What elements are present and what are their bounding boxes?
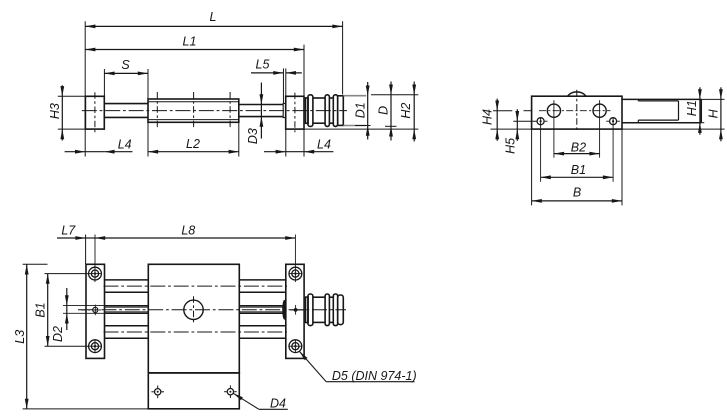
rod pilot hole on left flange (93, 307, 98, 312)
dimension H (720, 87, 722, 141)
coupling end body (side view) (338, 96, 344, 126)
mount hole right axis / B1 extension (612, 117, 614, 182)
dimension D2 (66, 288, 68, 330)
tongue slot (638, 100, 678, 102)
cylinder tube L2 (148, 99, 239, 122)
svg-text:B1: B1 (34, 302, 48, 317)
dimension L2 (148, 151, 239, 153)
dimension L7 and L8 (57, 237, 86, 239)
svg-text:L2: L2 (186, 137, 200, 151)
screw right top (DIN 974 counterbore) (289, 267, 302, 280)
svg-text:L1: L1 (183, 35, 197, 49)
guide rod hole left (547, 104, 560, 117)
extension lines L5 (282, 68, 284, 103)
dimension B2 (554, 153, 600, 155)
svg-text:B: B (573, 186, 581, 200)
seal washer (black) at right flange (282, 300, 286, 320)
dimension B1 (541, 176, 614, 178)
screw axis verticals / L7 L8 extensions (94, 235, 96, 283)
coupling rib 2 (plan) (325, 294, 329, 326)
coupling body 1 (side view) (313, 97, 325, 99)
svg-text:H3: H3 (48, 103, 62, 119)
center mark cylinder 3 (229, 92, 231, 130)
extension lines H3 (58, 95, 86, 97)
screw right bottom (DIN 974 counterbore) (289, 340, 302, 353)
dimension L3 (26, 264, 28, 409)
center mark right end block (294, 93, 296, 133)
svg-text:B1: B1 (571, 163, 586, 177)
leader D4 (233, 393, 243, 400)
guide rail bottom centerline (104, 331, 288, 333)
dimension L (85, 25, 342, 27)
end view cylinder bump arc (567, 92, 586, 96)
extension line L right (x=342.6) (342, 21, 344, 94)
mount hole right (B1) (610, 118, 617, 125)
extension lines B1 plan (45, 273, 89, 275)
svg-text:H4: H4 (481, 109, 495, 125)
dimension H1 (699, 87, 701, 135)
svg-text:D: D (377, 106, 391, 115)
coupling rib 3 (side view) (333, 95, 337, 127)
dimension L1 (85, 49, 304, 51)
hole D4 right (227, 389, 233, 395)
svg-text:D3: D3 (246, 128, 260, 144)
guide rail top (plan) (105, 279, 149, 281)
guide rod hole right (593, 104, 606, 117)
extension line S left (x=104.4) (103, 69, 105, 96)
guide rod hole left axis / B2 extension (553, 100, 555, 158)
svg-text:L7: L7 (61, 223, 76, 237)
centerline of cylinder side view (82, 110, 347, 112)
dimension L4 left (65, 151, 86, 153)
extension lines H4 H5 (493, 110, 512, 112)
rod end center dot on right flange (294, 308, 298, 312)
coupling body 2 (plan) (329, 296, 333, 298)
end view center line (576, 90, 578, 133)
svg-text:D4: D4 (270, 397, 286, 411)
extension lines L3 (23, 263, 48, 265)
svg-text:L3: L3 (13, 330, 27, 344)
svg-text:L8: L8 (181, 224, 195, 238)
piston rod D3 section (239, 104, 283, 106)
left end block (side view) (85, 96, 104, 129)
svg-text:L4: L4 (118, 137, 132, 151)
extension lines D1 D H2 (371, 94, 418, 96)
extension line L1 right (x=304) (303, 45, 305, 157)
dimension B1 plan (47, 274, 49, 347)
guide rail top centerline (104, 285, 288, 287)
right flange plate (plan) (286, 264, 304, 358)
mount hole left (B1) (537, 118, 544, 125)
D2 extension lines (63, 304, 105, 306)
carriage center circle vertical axis (193, 296, 195, 323)
leader D5 (DIN 974-1) (299, 351, 307, 360)
dimension D1 (367, 82, 369, 140)
coupling rib 1 (side view) (308, 95, 313, 127)
tongue tab (end view) (622, 98, 701, 100)
screw left top (DIN 974 counterbore) (89, 267, 102, 280)
dimension H5 (516, 109, 518, 141)
svg-text:D5 (DIN 974-1): D5 (DIN 974-1) (332, 369, 417, 383)
coupling rib 3 (plan) (333, 294, 337, 326)
dimension H4 (496, 99, 498, 141)
coupling end body (plan) (338, 295, 344, 325)
coupling body 1 (plan) (313, 296, 325, 298)
extension line S right (x=148) (147, 69, 149, 99)
spacer ring L5 (283, 103, 286, 117)
screw left bottom (DIN 974 counterbore) (89, 340, 102, 353)
dimension S (104, 72, 148, 74)
dimension D (390, 82, 392, 141)
svg-text:H1: H1 (685, 100, 699, 116)
guide rod holes horizontal centerline (539, 110, 611, 112)
hole D4 left (155, 389, 161, 395)
center mark cylinder 2 (193, 92, 195, 130)
left flange plate (plan) (86, 264, 105, 358)
mount hole left axis / B1 extension (540, 117, 542, 182)
piston rod (plan) with thread lines (105, 305, 149, 307)
piston rod left section (104, 103, 148, 105)
dimension L4 right (264, 151, 286, 153)
coupling rib 2 (side view) (325, 95, 329, 127)
svg-text:D1: D1 (354, 102, 368, 118)
dimension B (532, 200, 622, 202)
extension lines B (531, 129, 533, 205)
extension lines H1 H (701, 98, 724, 100)
svg-text:L: L (210, 10, 217, 24)
dimension H2 (413, 82, 415, 142)
carriage block (plan) (148, 264, 239, 373)
svg-text:L5: L5 (256, 58, 270, 72)
coupling body 2 (side view) (329, 97, 333, 99)
coupling nipple tip (gray) (343, 95, 366, 97)
svg-text:D2: D2 (51, 326, 65, 342)
svg-text:B2: B2 (571, 140, 586, 154)
base plate (plan) (148, 373, 239, 409)
svg-text:S: S (121, 58, 130, 72)
coupling collar (plan) (306, 297, 309, 322)
main centerline plan view (78, 309, 346, 311)
center mark cylinder 1 (156, 92, 158, 130)
right end block (side view) (286, 96, 304, 129)
end view body plate (532, 96, 622, 129)
carriage center circle (184, 300, 203, 319)
coupling collar (side view) (306, 98, 309, 123)
center mark left end block (94, 92, 96, 132)
svg-text:H: H (706, 108, 720, 118)
dimension H3 (61, 85, 63, 140)
extension lines L2 (147, 122, 149, 156)
svg-text:H2: H2 (399, 103, 413, 119)
guide rod hole right axis / B2 extension (599, 100, 601, 158)
svg-text:L4: L4 (317, 138, 331, 152)
dimension L5 (251, 72, 283, 74)
guide rail bottom (plan) (105, 325, 149, 327)
svg-text:H5: H5 (504, 138, 518, 154)
extension lines L7 L8 (85, 235, 87, 265)
extension line left (x=85.2) (84, 21, 86, 156)
coupling rib 1 (plan) (308, 294, 313, 326)
dimension D3 (260, 83, 262, 139)
